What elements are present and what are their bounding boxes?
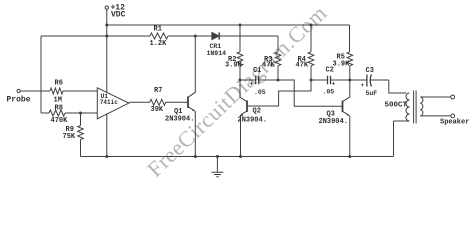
svg-text:C1: C1 (253, 67, 261, 75)
svg-text:2N3904.: 2N3904. (319, 118, 348, 126)
svg-text:.05: .05 (323, 89, 335, 96)
svg-text:R1: R1 (154, 26, 162, 34)
svg-text:C2: C2 (326, 67, 334, 75)
svg-text:+: + (361, 82, 365, 89)
svg-text:2N3904.: 2N3904. (238, 117, 267, 125)
svg-text:1M: 1M (54, 96, 62, 104)
svg-text:47K: 47K (296, 62, 309, 70)
svg-text:75K: 75K (63, 133, 76, 141)
svg-text:5uF: 5uF (366, 90, 378, 97)
svg-text:1N914: 1N914 (207, 50, 227, 57)
svg-text:Speaker: Speaker (440, 119, 469, 127)
svg-text:3.9K: 3.9K (225, 62, 243, 70)
svg-text:3.9K: 3.9K (333, 61, 351, 69)
svg-text:1.2K: 1.2K (150, 40, 168, 48)
svg-text:C3: C3 (366, 67, 374, 75)
svg-text:2N3904.: 2N3904. (165, 115, 194, 123)
svg-text:+: + (332, 81, 336, 88)
svg-text:VDC: VDC (111, 10, 126, 19)
svg-text:Probe: Probe (7, 96, 31, 105)
svg-text:470K: 470K (51, 117, 69, 125)
svg-text:CR1: CR1 (210, 43, 222, 50)
svg-text:741ic: 741ic (100, 99, 118, 106)
svg-text:+: + (250, 81, 254, 88)
svg-text:R7: R7 (154, 87, 162, 95)
svg-text:.05: .05 (254, 89, 266, 96)
svg-text:R8: R8 (55, 104, 63, 112)
svg-text:R6: R6 (55, 80, 63, 88)
svg-text:Q2: Q2 (253, 108, 261, 116)
svg-text:47K: 47K (262, 62, 275, 70)
svg-text:39K: 39K (151, 106, 164, 114)
svg-text:500CT: 500CT (385, 102, 408, 110)
